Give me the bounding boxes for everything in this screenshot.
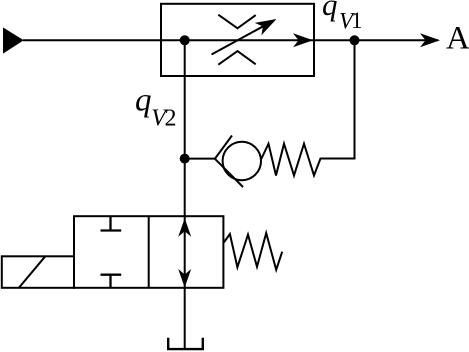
svg-text:A: A	[446, 21, 469, 57]
svg-text:1: 1	[351, 8, 363, 33]
svg-text:q: q	[135, 83, 152, 119]
svg-text:2: 2	[165, 105, 177, 131]
svg-text:q: q	[322, 0, 338, 22]
